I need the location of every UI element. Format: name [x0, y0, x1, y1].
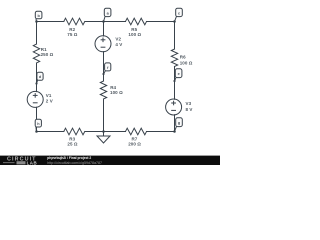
svg-text:V3: V3	[186, 101, 192, 106]
ground	[97, 132, 110, 144]
svg-text:200 Ω: 200 Ω	[128, 142, 141, 147]
junction dot node h	[35, 130, 38, 133]
node c	[175, 8, 183, 21]
svg-text:8 V: 8 V	[186, 107, 193, 112]
node h	[35, 119, 41, 131]
resistor R1	[33, 44, 39, 63]
resistor R7	[126, 128, 147, 135]
voltage source V2	[95, 36, 111, 52]
wire right column top	[174, 22, 176, 50]
wire R3 to ground junction	[85, 131, 126, 133]
junction dot node g	[173, 130, 176, 133]
wire R2 to node a	[85, 21, 104, 23]
svg-text:25 Ω: 25 Ω	[67, 142, 77, 147]
svg-text:100 Ω: 100 Ω	[110, 90, 123, 95]
voltage source V3	[166, 99, 182, 115]
junction dot node e	[173, 80, 175, 82]
svg-text:phpvrbujh2i / Final project 2: phpvrbujh2i / Final project 2	[47, 156, 91, 160]
svg-text:100 Ω: 100 Ω	[180, 60, 193, 65]
junction dot node c	[173, 20, 176, 23]
svg-text:R4: R4	[110, 85, 116, 90]
svg-text:4 V: 4 V	[115, 42, 122, 47]
wire R5 to node c	[147, 21, 175, 23]
footer CircuitLab logo	[3, 157, 37, 166]
wire V1 to node h	[36, 107, 38, 131]
svg-text:V1: V1	[46, 93, 52, 98]
svg-text:LAB: LAB	[27, 160, 38, 165]
node d	[37, 72, 44, 83]
svg-text:75 Ω: 75 Ω	[67, 32, 77, 37]
svg-text:V2: V2	[115, 36, 121, 41]
wire mid column top	[103, 22, 105, 37]
svg-text:c: c	[178, 11, 180, 15]
wire V2 to R4	[103, 52, 105, 81]
resistor R3	[64, 128, 85, 135]
junction dot node d	[35, 82, 37, 84]
node b	[35, 11, 42, 21]
wire R4 to ground junction	[103, 99, 105, 132]
resistor R6	[171, 49, 177, 67]
node f	[104, 63, 111, 74]
wire left column top	[36, 22, 38, 45]
wire node a to R5	[104, 21, 126, 23]
voltage source V1	[27, 91, 43, 107]
resistor R2	[64, 18, 85, 25]
junction dot ground	[102, 130, 105, 133]
svg-text:250 Ω: 250 Ω	[41, 52, 54, 57]
svg-text:100 Ω: 100 Ω	[128, 32, 141, 37]
node g	[175, 118, 183, 132]
svg-text:2 V: 2 V	[46, 99, 53, 104]
resistor R5	[126, 18, 147, 25]
wire R6 to V3	[174, 67, 176, 100]
footer bar	[0, 156, 220, 165]
wire V3 to node g	[174, 115, 176, 132]
junction dot top-left	[35, 20, 38, 23]
wire R7 to bottom-right	[147, 131, 175, 133]
junction dot node f	[102, 73, 104, 75]
svg-text:R6: R6	[180, 55, 186, 60]
node e	[175, 69, 182, 81]
wire R1 to V1	[36, 63, 38, 92]
resistor R4	[100, 81, 106, 99]
junction dot node a	[102, 20, 105, 23]
wire bottom-left to R3	[37, 131, 64, 133]
node a	[104, 8, 111, 21]
svg-text:e: e	[178, 72, 180, 76]
svg-text:http://circuitlab.com/c/g59d78: http://circuitlab.com/c/g59d78a787	[47, 161, 102, 165]
wire top-left to R2	[37, 21, 64, 23]
